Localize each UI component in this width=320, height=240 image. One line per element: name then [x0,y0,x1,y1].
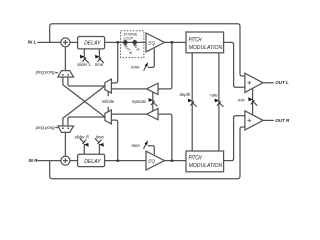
svg-text:IN L: IN L [28,40,37,45]
svg-text:EQ: EQ [148,40,155,46]
svg-text:rate: rate [210,92,218,97]
svg-text:slider R: slider R [74,134,88,139]
svg-text:tone: tone [131,64,140,69]
svg-text:DELAY: DELAY [84,41,101,47]
svg-text:IN B: IN B [133,43,141,52]
svg-text:ping pong: ping pong [35,125,55,130]
svg-text:MODULATION: MODULATION [189,45,223,51]
svg-text:OUT B: OUT B [123,43,133,55]
svg-text:DELAY: DELAY [84,159,101,165]
svg-text:infinite: infinite [102,99,115,104]
svg-text:ping pong: ping pong [35,70,55,75]
svg-text:time: time [95,62,104,67]
svg-text:slider L: slider L [77,62,91,67]
svg-text:time: time [96,134,105,139]
svg-text:PITCH: PITCH [189,37,202,43]
svg-text:IN R: IN R [29,158,39,163]
svg-text:tone: tone [132,143,141,148]
svg-text:repeats: repeats [132,99,147,104]
svg-text:MODULATION: MODULATION [189,163,223,169]
svg-text:mix: mix [238,97,245,102]
svg-text:PITCH: PITCH [189,155,202,161]
svg-text:LOOP: LOOP [124,37,134,41]
svg-text:depth: depth [180,92,191,97]
svg-text:EQ: EQ [148,159,155,165]
svg-text:OUT L: OUT L [275,80,289,85]
svg-text:OUT R: OUT R [275,118,290,123]
